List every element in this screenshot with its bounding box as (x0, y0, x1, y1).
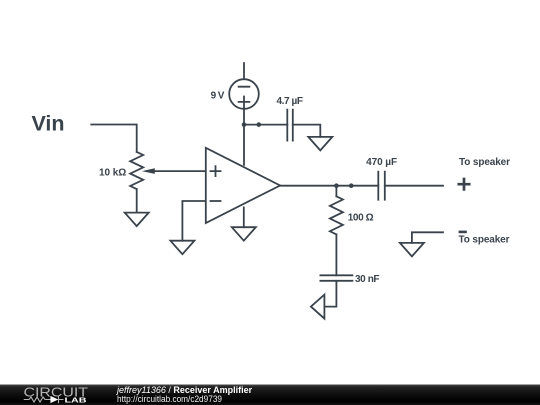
svg-text:30 nF: 30 nF (355, 274, 380, 285)
svg-text:Vin: Vin (32, 112, 65, 136)
svg-text:10 kΩ: 10 kΩ (99, 168, 126, 179)
svg-text:LAB: LAB (65, 395, 88, 404)
svg-text:9 V: 9 V (211, 91, 225, 102)
svg-text:To speaker: To speaker (459, 234, 510, 245)
svg-text:470 µF: 470 µF (366, 157, 397, 168)
svg-text:100 Ω: 100 Ω (348, 212, 374, 223)
svg-text:4.7 µF: 4.7 µF (277, 96, 304, 107)
svg-text:http://circuitlab.com/c2d9739: http://circuitlab.com/c2d9739 (117, 394, 222, 404)
svg-text:To speaker: To speaker (459, 157, 510, 168)
